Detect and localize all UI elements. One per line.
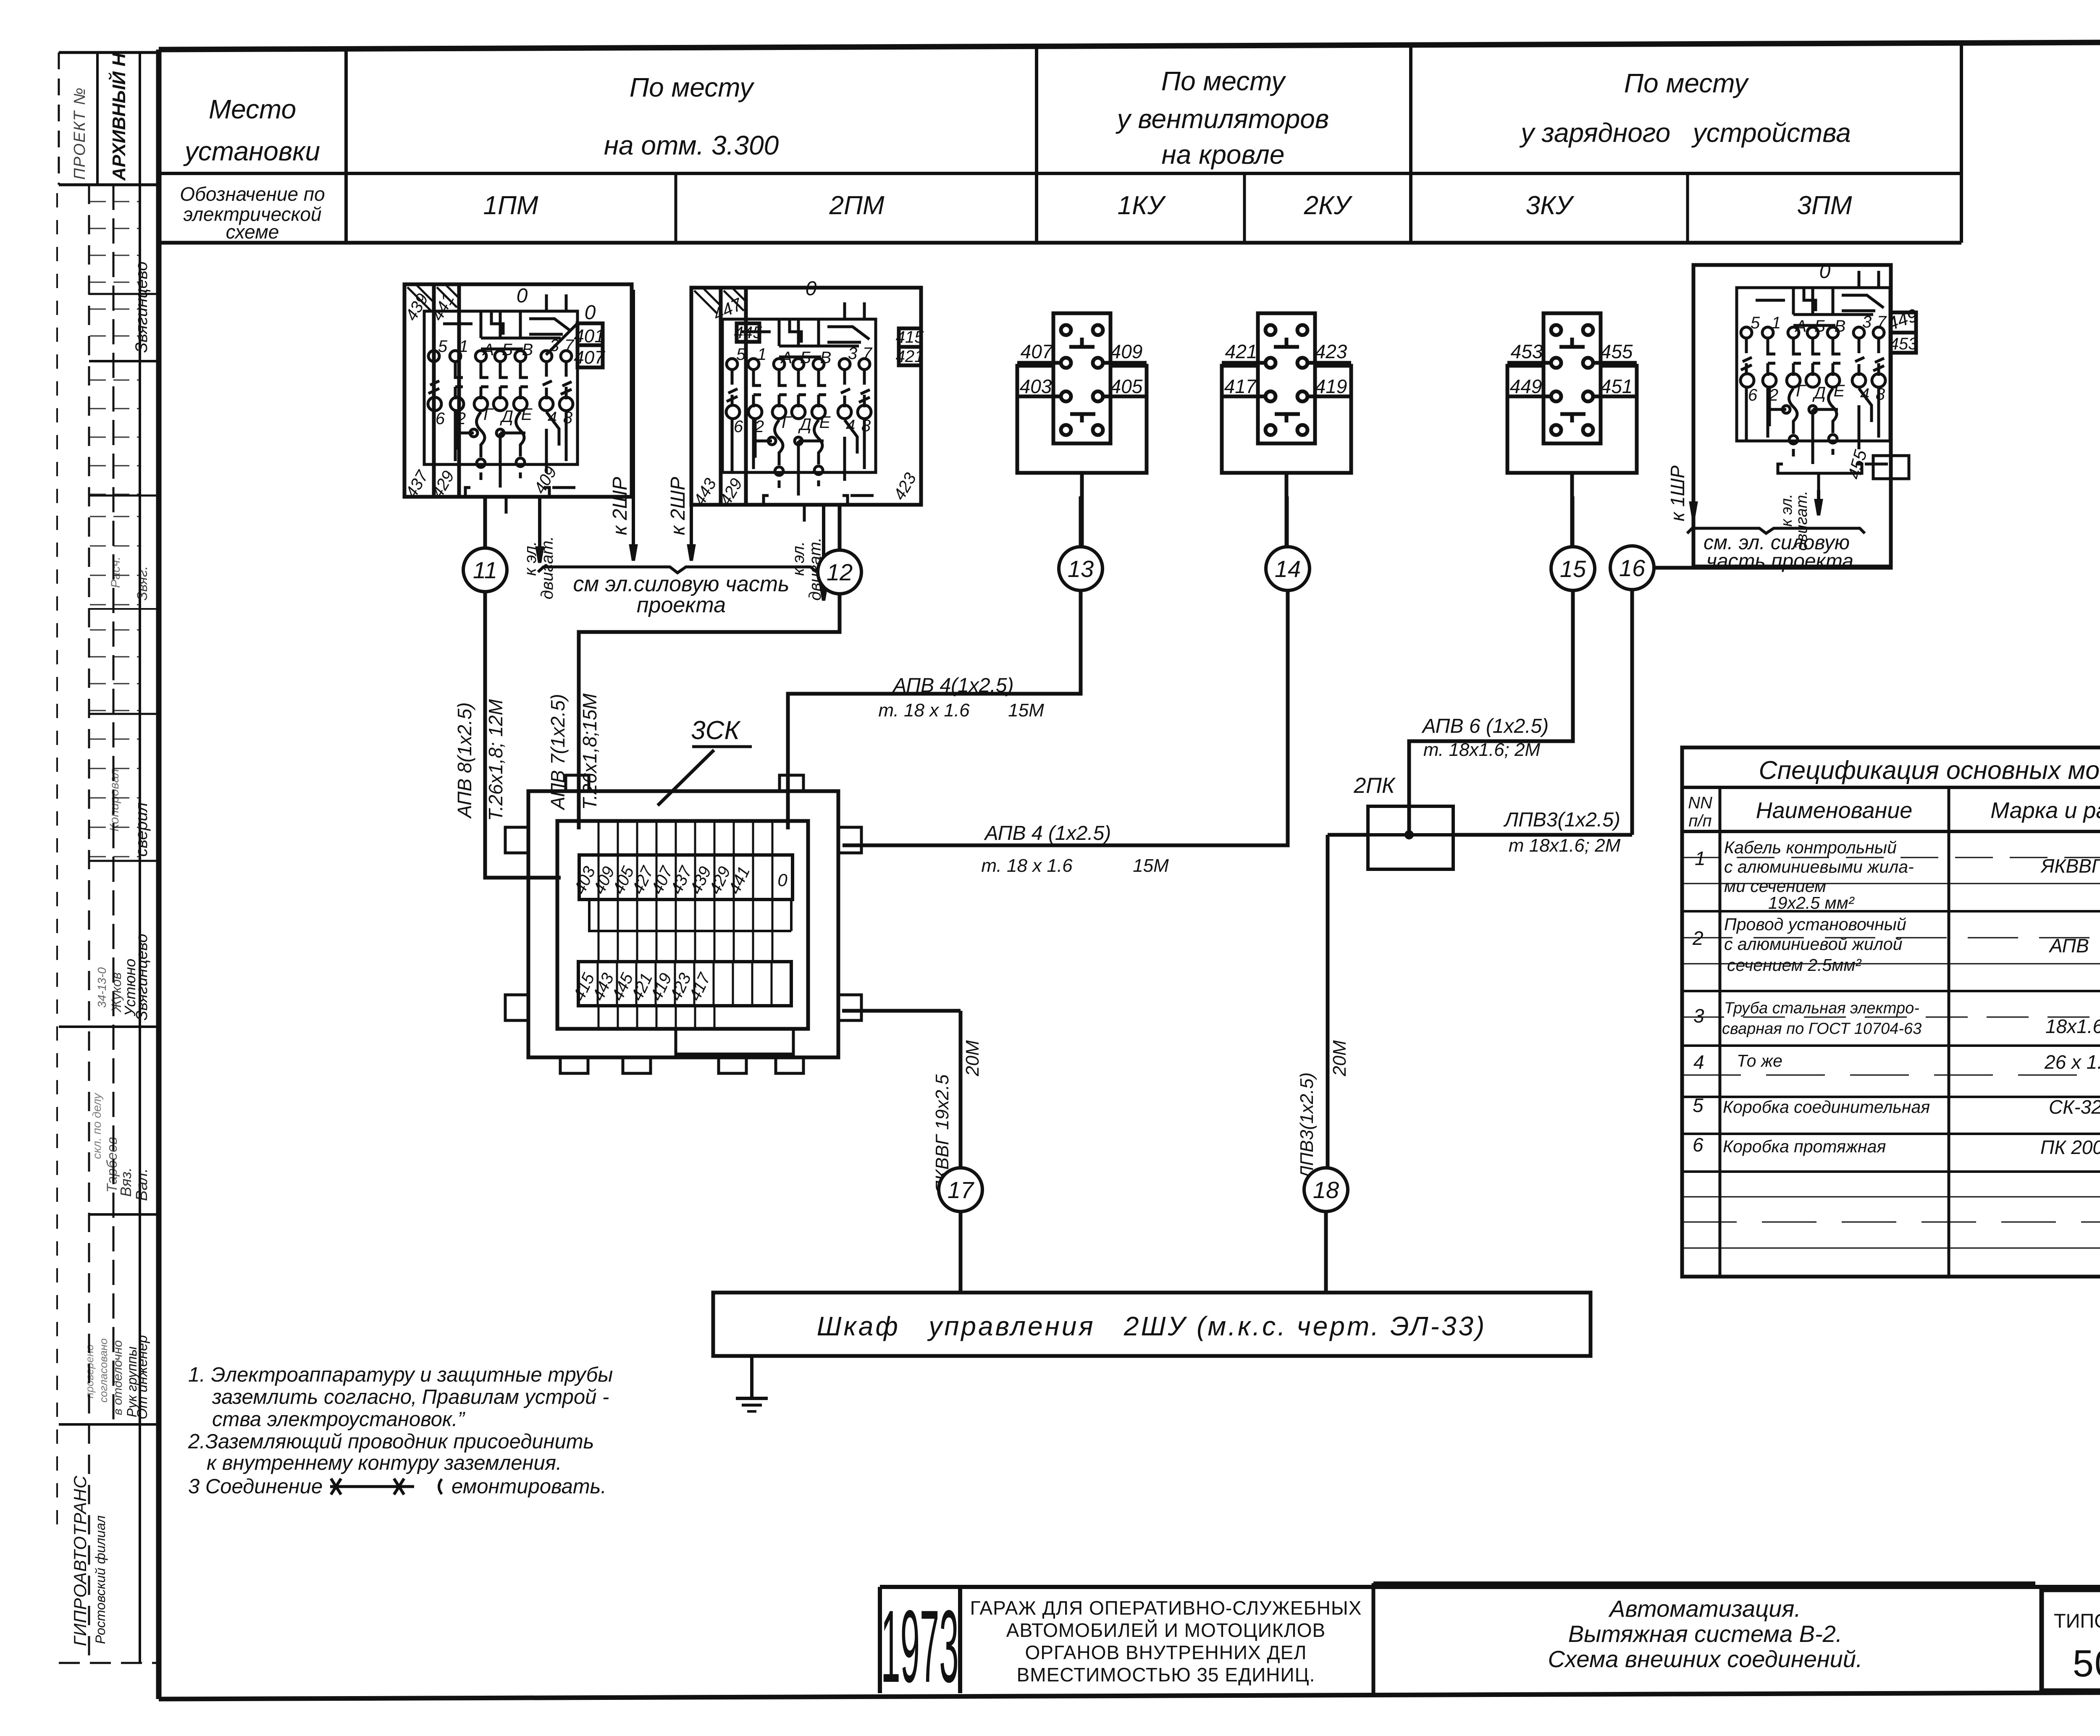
- svg-text:423: 423: [1315, 341, 1347, 362]
- svg-text:34-13-0: 34-13-0: [95, 967, 108, 1008]
- svg-text:2КУ: 2КУ: [1304, 191, 1353, 220]
- svg-text:А: А: [1795, 317, 1807, 336]
- svg-text:3СК: 3СК: [691, 716, 741, 745]
- svg-text:емонтировать.: емонтировать.: [451, 1475, 606, 1498]
- svg-text:403: 403: [1020, 375, 1052, 397]
- svg-text:Труба стальная электро-: Труба стальная электро-: [1724, 999, 1919, 1017]
- svg-text:0: 0: [585, 302, 596, 324]
- svg-text:1: 1: [1695, 847, 1706, 869]
- svg-text:1: 1: [757, 345, 766, 364]
- svg-text:8: 8: [861, 417, 871, 435]
- svg-text:АРХИВНЫЙ Н: АРХИВНЫЙ Н: [108, 52, 129, 181]
- svg-text:ГАРАЖ ДЛЯ ОПЕРАТИВНО-СЛУЖЕБН: ГАРАЖ ДЛЯ ОПЕРАТИВНО-СЛУЖЕБНЫХ: [970, 1597, 1362, 1619]
- svg-text:401: 401: [574, 326, 604, 346]
- svg-text:То же: То же: [1737, 1051, 1782, 1070]
- svg-text:В: В: [820, 349, 832, 367]
- svg-text:двигат.: двигат.: [538, 536, 556, 600]
- svg-text:2: 2: [1692, 927, 1704, 949]
- svg-text:18х1.6: 18х1.6: [2045, 1015, 2100, 1037]
- svg-text:503-208: 503-208: [2073, 1643, 2100, 1685]
- svg-text:1. Электроаппаратуру и защитны: 1. Электроаппаратуру и защитные трубы: [188, 1364, 613, 1386]
- svg-text:на отм. 3.300: на отм. 3.300: [604, 130, 779, 160]
- svg-text:на кровле: на кровле: [1162, 139, 1285, 170]
- svg-text:Автоматизация.: Автоматизация.: [1608, 1595, 1801, 1622]
- svg-text:у зарядного устройства: у зарядного устройства: [1519, 118, 1851, 148]
- svg-text:скл. по делу: скл. по делу: [90, 1092, 103, 1159]
- svg-text:11: 11: [473, 557, 497, 583]
- svg-text:часть проекта: часть проекта: [1706, 550, 1853, 572]
- svg-text:Е: Е: [1834, 382, 1845, 400]
- svg-text:6: 6: [1748, 386, 1758, 404]
- svg-text:3: 3: [550, 336, 559, 355]
- svg-text:2: 2: [1769, 386, 1778, 404]
- svg-text:По месту: По месту: [1161, 66, 1286, 96]
- svg-text:15М: 15М: [1008, 700, 1044, 721]
- svg-text:421: 421: [896, 347, 924, 366]
- svg-text:Б: Б: [1814, 317, 1825, 336]
- svg-text:ГИПРОАВТОТРАНС: ГИПРОАВТОТРАНС: [70, 1475, 90, 1646]
- svg-text:Место: Место: [209, 94, 296, 124]
- svg-text:Кабель контрольный: Кабель контрольный: [1724, 838, 1897, 857]
- svg-text:407: 407: [574, 347, 605, 368]
- svg-text:к эл.: к эл.: [521, 541, 540, 576]
- svg-text:4: 4: [1860, 385, 1869, 404]
- svg-text:Д: Д: [500, 407, 513, 426]
- svg-text:2ПК: 2ПК: [1353, 774, 1396, 798]
- svg-text:5: 5: [1693, 1094, 1704, 1116]
- svg-text:5: 5: [736, 345, 746, 364]
- svg-text:ПРОЕКТ №: ПРОЕКТ №: [71, 87, 89, 180]
- svg-text:с алюминиевой жилой: с алюминиевой жилой: [1724, 934, 1903, 954]
- svg-text:Спецификация основных монтажны: Спецификация основных монтажных материал…: [1759, 756, 2100, 784]
- svg-text:0: 0: [1819, 260, 1831, 283]
- svg-text:сечением 2.5мм²: сечением 2.5мм²: [1727, 955, 1861, 975]
- svg-text:т. 18 х 1.6: т. 18 х 1.6: [878, 700, 970, 721]
- svg-text:6: 6: [734, 417, 743, 436]
- svg-text:проверено: проверено: [83, 1345, 96, 1398]
- svg-text:А: А: [482, 341, 494, 359]
- svg-text:453: 453: [1890, 335, 1918, 353]
- svg-text:17: 17: [948, 1177, 974, 1203]
- svg-text:ОРГАНОВ ВНУТРЕННИХ ДЕЛ: ОРГАНОВ ВНУТРЕННИХ ДЕЛ: [1025, 1642, 1307, 1663]
- svg-text:Г: Г: [1796, 382, 1806, 400]
- svg-text:Б: Б: [800, 349, 811, 367]
- svg-text:Звяг.: Звяг.: [134, 566, 150, 601]
- svg-text:сверил: сверил: [132, 802, 151, 857]
- svg-text:13: 13: [1068, 556, 1094, 582]
- svg-text:т 18х1.6; 2М: т 18х1.6; 2М: [1509, 835, 1621, 856]
- svg-text:Обозначение по: Обозначение по: [180, 183, 325, 205]
- svg-text:7: 7: [863, 344, 873, 363]
- svg-text:т. 18 х 1.6: т. 18 х 1.6: [981, 855, 1073, 876]
- svg-text:АПВ: АПВ: [2048, 935, 2089, 957]
- svg-text:По месту: По месту: [1624, 68, 1749, 98]
- svg-text:Звягинцево: Звягинцево: [132, 262, 151, 353]
- svg-text:Д: Д: [798, 415, 811, 434]
- svg-text:18: 18: [1313, 1177, 1339, 1203]
- svg-text:3КУ: 3КУ: [1526, 191, 1575, 220]
- svg-text:445: 445: [734, 323, 762, 342]
- svg-text:4: 4: [846, 417, 855, 435]
- svg-text:Тарбеев: Тарбеев: [104, 1137, 120, 1193]
- svg-text:к эл.: к эл.: [789, 541, 808, 576]
- svg-text:Вал.: Вал.: [133, 1168, 151, 1201]
- svg-text:АПВ 4(1х2.5): АПВ 4(1х2.5): [892, 674, 1013, 697]
- svg-text:ВМЕСТИМОСТЬЮ 35 ЕДИНИЦ.: ВМЕСТИМОСТЬЮ 35 ЕДИНИЦ.: [1017, 1664, 1315, 1686]
- svg-text:407: 407: [1021, 341, 1053, 362]
- svg-text:в отделочно: в отделочно: [111, 1340, 125, 1415]
- svg-text:8: 8: [563, 409, 573, 427]
- svg-text:419: 419: [1315, 375, 1347, 397]
- svg-text:3ПМ: 3ПМ: [1797, 191, 1852, 220]
- svg-text:ЛПВ3(1х2.5): ЛПВ3(1х2.5): [1297, 1073, 1317, 1180]
- svg-text:3 Соединение: 3 Соединение: [188, 1475, 323, 1498]
- svg-text:1КУ: 1КУ: [1118, 191, 1166, 220]
- svg-text:12: 12: [827, 559, 853, 585]
- svg-text:3: 3: [1693, 1005, 1704, 1027]
- svg-text:1: 1: [459, 337, 468, 356]
- svg-text:к внутреннему контуру зазем: к внутреннему контуру заземления.: [207, 1452, 562, 1474]
- svg-text:АПВ 8(1х2.5): АПВ 8(1х2.5): [454, 702, 475, 819]
- svg-text:Г: Г: [782, 413, 792, 432]
- svg-text:0: 0: [806, 278, 817, 300]
- svg-text:20М: 20М: [1329, 1040, 1350, 1077]
- svg-text:у вентиляторов: у вентиляторов: [1116, 104, 1329, 134]
- svg-text:421: 421: [1225, 341, 1257, 362]
- svg-text:ЛПВ3(1х2.5): ЛПВ3(1х2.5): [1503, 809, 1620, 831]
- svg-text:По месту: По месту: [630, 72, 755, 102]
- svg-text:451: 451: [1601, 375, 1633, 397]
- svg-text:Устюно: Устюно: [121, 959, 139, 1017]
- svg-text:Наименование: Наименование: [1756, 798, 1913, 823]
- svg-text:5: 5: [438, 337, 448, 356]
- svg-text:Рук группы: Рук группы: [124, 1346, 139, 1417]
- svg-text:0: 0: [517, 285, 528, 307]
- svg-text:8: 8: [1876, 385, 1885, 404]
- svg-text:схеме: схеме: [226, 221, 279, 243]
- svg-text:5: 5: [1751, 314, 1760, 332]
- svg-text:16: 16: [1619, 555, 1646, 581]
- svg-text:Е: Е: [819, 413, 831, 432]
- svg-text:1: 1: [1772, 314, 1781, 332]
- svg-text:26 х 1.8: 26 х 1.8: [2044, 1051, 2100, 1073]
- svg-text:3: 3: [848, 344, 857, 363]
- svg-text:к 2ШР: к 2ШР: [609, 477, 631, 535]
- svg-text:п/п: п/п: [1688, 812, 1711, 830]
- svg-text:В: В: [1835, 317, 1846, 336]
- svg-text:15: 15: [1560, 556, 1586, 582]
- svg-text:3: 3: [1862, 313, 1872, 331]
- svg-text:АПВ 6 (1х2.5): АПВ 6 (1х2.5): [1421, 715, 1549, 737]
- svg-text:ТИПОВОЙ ПРОЕКТ: ТИПОВОЙ ПРОЕКТ: [2054, 1610, 2100, 1632]
- svg-text:Провод установочный: Провод установочный: [1724, 915, 1906, 934]
- svg-text:15М: 15М: [1133, 855, 1169, 876]
- svg-text:Е: Е: [521, 405, 533, 424]
- svg-text:Жуков: Жуков: [109, 972, 124, 1013]
- svg-text:сварная по ГОСТ 10704-63: сварная по ГОСТ 10704-63: [1722, 1020, 1921, 1038]
- svg-text:Коробка соединительная: Коробка соединительная: [1723, 1097, 1930, 1117]
- svg-text:Схема внешних соединений.: Схема внешних соединений.: [1548, 1646, 1863, 1672]
- svg-text:6: 6: [436, 409, 445, 428]
- svg-text:NN: NN: [1688, 794, 1712, 812]
- svg-text:14: 14: [1275, 556, 1301, 582]
- svg-text:2.Заземляющий проводник присое: 2.Заземляющий проводник присоединить: [188, 1430, 594, 1453]
- svg-text:проекта: проекта: [637, 593, 726, 617]
- svg-text:Марка и размер: Марка и размер: [1990, 798, 2100, 823]
- svg-text:7: 7: [1877, 313, 1887, 331]
- svg-text:согласовано: согласовано: [97, 1338, 110, 1403]
- svg-text:417: 417: [1224, 375, 1257, 397]
- svg-text:т. 18х1.6; 2М: т. 18х1.6; 2М: [1423, 740, 1541, 760]
- svg-text:СК-32: СК-32: [2049, 1096, 2100, 1118]
- svg-text:Копировал: Копировал: [108, 769, 121, 831]
- svg-text:заземлить согласно‚ Правилам у: заземлить согласно‚ Правилам устрой -: [212, 1386, 609, 1408]
- svg-text:2ПМ: 2ПМ: [829, 191, 884, 220]
- svg-text:2: 2: [456, 409, 466, 428]
- svg-text:Вытяжная система В-2.: Вытяжная система В-2.: [1568, 1621, 1843, 1647]
- svg-text:7: 7: [564, 336, 575, 355]
- svg-text:Шкаф управления 2ШУ (м.к.с: Шкаф управления 2ШУ (м.к.с. черт. ЭЛ-33): [817, 1311, 1487, 1341]
- svg-text:с алюминиевыми жила-: с алюминиевыми жила-: [1724, 857, 1914, 876]
- svg-text:449: 449: [1510, 375, 1542, 397]
- svg-text:В: В: [522, 341, 533, 359]
- svg-text:Г: Г: [483, 405, 494, 424]
- svg-text:405: 405: [1110, 375, 1143, 397]
- svg-text:Б: Б: [502, 341, 513, 359]
- svg-text:А: А: [780, 349, 793, 367]
- svg-text:455: 455: [1601, 341, 1633, 362]
- svg-text:2: 2: [754, 417, 764, 436]
- svg-text:ПК 200х90: ПК 200х90: [2040, 1136, 2100, 1158]
- svg-text:Коробка протяжная: Коробка протяжная: [1723, 1137, 1886, 1156]
- svg-text:19х2.5 мм²: 19х2.5 мм²: [1768, 893, 1855, 913]
- svg-text:20М: 20М: [962, 1040, 983, 1077]
- svg-text:АВТОМОБИЛЕЙ И МОТОЦИКЛОВ: АВТОМОБИЛЕЙ И МОТОЦИКЛОВ: [1006, 1619, 1326, 1641]
- svg-text:6: 6: [1693, 1134, 1704, 1156]
- svg-text:ЯКВВГ: ЯКВВГ: [2040, 855, 2100, 877]
- svg-text:415: 415: [896, 328, 924, 346]
- svg-text:1973: 1973: [881, 1589, 958, 1704]
- svg-text:ства электроустановок.”: ства электроустановок.”: [212, 1408, 466, 1431]
- svg-text:4: 4: [1693, 1051, 1704, 1073]
- svg-text:Д: Д: [1812, 384, 1826, 402]
- svg-text:установки: установки: [183, 136, 320, 166]
- svg-text:АПВ 4 (1х2.5): АПВ 4 (1х2.5): [984, 822, 1111, 844]
- svg-text:409: 409: [1110, 341, 1143, 362]
- svg-text:453: 453: [1511, 341, 1543, 362]
- svg-text:0: 0: [777, 870, 787, 890]
- svg-text:АПВ 7(1х2.5): АПВ 7(1х2.5): [547, 694, 569, 810]
- svg-text:к 2ШР: к 2ШР: [667, 477, 689, 535]
- svg-text:Ростовский филиал: Ростовский филиал: [93, 1516, 108, 1644]
- svg-text:к 1ШР: к 1ШР: [1667, 465, 1688, 521]
- svg-text:Расч.: Расч.: [109, 556, 123, 588]
- svg-text:4: 4: [548, 409, 557, 427]
- svg-text:1ПМ: 1ПМ: [483, 191, 538, 220]
- svg-text:Т.26х1,8; 12М: Т.26х1,8; 12М: [485, 699, 507, 821]
